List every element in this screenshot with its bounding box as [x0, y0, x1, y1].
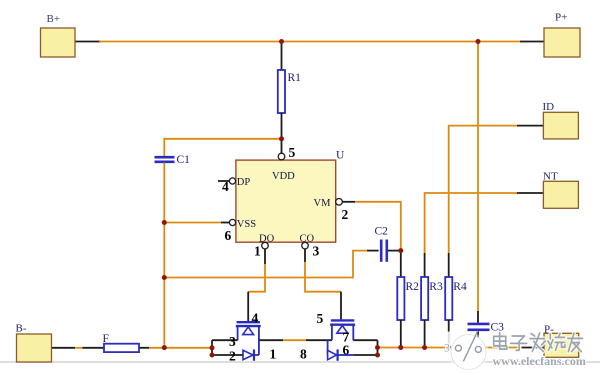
svg-text:5: 5	[317, 311, 324, 326]
wire VM to C2/R2 node	[342, 202, 401, 251]
svg-text:R2: R2	[406, 281, 420, 293]
left MOSFET source pin lines 3 and 2	[212, 340, 243, 355]
resistor R1	[278, 42, 285, 139]
fuse F	[104, 344, 139, 352]
IC U body	[236, 160, 336, 242]
junction dot R2 bottom	[398, 345, 403, 350]
resistor R2	[397, 251, 404, 348]
svg-text:U: U	[336, 150, 345, 162]
wire ID net	[449, 126, 544, 277]
wire VDD node to C1	[164, 139, 281, 156]
junction dot left MOSFET source lower	[210, 353, 215, 358]
junction dot C3 bottom	[476, 345, 481, 350]
junction dot R4 bottom	[446, 345, 451, 350]
svg-text:1: 1	[270, 347, 277, 362]
connector P+	[544, 12, 580, 58]
capacitor C2	[381, 240, 401, 262]
capacitor C1	[155, 157, 175, 162]
svg-text:R4: R4	[453, 281, 467, 293]
junction dot long net at C1 rail	[162, 275, 167, 280]
svg-text:B+: B+	[47, 13, 61, 25]
pin 6 VSS	[225, 219, 257, 243]
watermark big text (stylized CJK strokes)	[494, 333, 583, 352]
junction dot top rail at P+ branch	[476, 39, 481, 44]
svg-text:4: 4	[252, 311, 259, 326]
watermark logo circle	[449, 331, 489, 372]
svg-text:2: 2	[229, 349, 236, 364]
svg-text:P+: P+	[555, 12, 567, 24]
junction dot VDD top rail at R1	[279, 39, 284, 44]
wire VSS	[164, 222, 229, 224]
pin 2 VM	[314, 198, 349, 222]
pin 3 CO	[300, 234, 320, 259]
right MOSFET source pin lines 7 and 6	[353, 340, 377, 355]
svg-text:1: 1	[254, 244, 261, 259]
wire top rail B+ to P+	[75, 41, 544, 43]
wire P+ branch down to C3	[477, 42, 479, 312]
resistor R4	[445, 277, 452, 348]
svg-text:DP: DP	[237, 177, 251, 188]
junction dot R3 bottom	[422, 345, 427, 350]
svg-text:VDD: VDD	[272, 171, 295, 182]
watermark wash over R4 lower lead	[444, 332, 455, 346]
svg-text:2: 2	[342, 207, 349, 222]
resistor R3	[421, 277, 428, 348]
transistor left MOSFET	[236, 322, 261, 361]
svg-text:8: 8	[300, 347, 307, 362]
connector B+	[41, 13, 76, 57]
svg-text:F: F	[103, 333, 109, 345]
svg-text:R1: R1	[288, 72, 302, 84]
svg-text:5: 5	[289, 145, 296, 160]
bottom gray border line	[0, 361, 600, 363]
svg-text:www.elecfans.com: www.elecfans.com	[493, 354, 586, 368]
connector B-	[16, 323, 52, 363]
svg-text:R3: R3	[429, 281, 443, 293]
junction dot VDD node R1/C1/pin5	[279, 136, 284, 141]
svg-text:C1: C1	[177, 154, 191, 166]
connector NT	[543, 171, 578, 209]
wire NT net	[425, 193, 544, 277]
svg-text:B-: B-	[16, 323, 27, 335]
wire CO pin to gate 5	[305, 249, 341, 320]
svg-text:ID: ID	[543, 101, 555, 113]
svg-text:VSS: VSS	[237, 219, 256, 230]
junction dot VSS at C1 rail	[162, 220, 167, 225]
svg-text:C2: C2	[375, 226, 389, 238]
svg-text:6: 6	[225, 228, 232, 243]
junction dot left MOSFET source upper	[210, 345, 215, 350]
wire B- box to fuse to MOSFET source	[52, 347, 213, 349]
connector ID	[543, 101, 579, 139]
pin 4 DP	[218, 177, 250, 194]
svg-text:6: 6	[343, 342, 350, 357]
pin 5 VDD	[272, 145, 296, 182]
junction dot right MOSFET source lower	[375, 353, 380, 358]
wire B- net long horizontal to C2 left	[164, 251, 378, 278]
connector P-	[544, 324, 579, 358]
junction dot B- rail at C1	[162, 345, 167, 350]
svg-text:3: 3	[313, 244, 320, 259]
svg-text:NT: NT	[543, 171, 558, 183]
svg-text:C3: C3	[491, 322, 505, 334]
wire DO pin to gate 4	[248, 249, 265, 321]
pin 1 DO	[254, 234, 275, 259]
junction dot VM/C2/R2 node	[398, 248, 403, 253]
capacitor C3 electrolytic	[468, 311, 490, 348]
transistor right MOSFET	[328, 320, 356, 360]
svg-text:VM: VM	[314, 198, 332, 209]
wire drain link between MOSFETs	[259, 339, 332, 341]
wire C1 down to B- rail	[163, 163, 165, 348]
svg-text:DO: DO	[259, 234, 275, 245]
svg-text:3: 3	[229, 334, 236, 349]
wire bottom right rail to P-	[378, 347, 545, 349]
svg-text:4: 4	[222, 179, 229, 194]
junction dot right MOSFET source upper	[375, 345, 380, 350]
